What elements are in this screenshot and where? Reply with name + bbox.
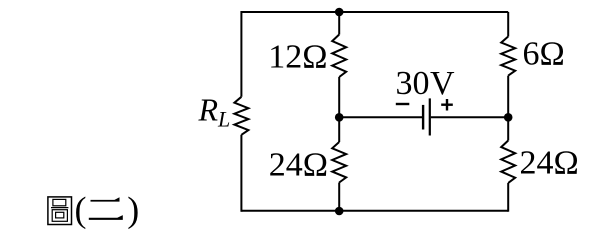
svg-text:30: 30 [396,65,430,102]
svg-text:24Ω: 24Ω [520,145,579,182]
wire top [241,11,508,13]
caption glyph ER (two) bottom stroke [89,215,123,220]
node bottom junction [335,207,344,216]
caption glyph TU (figure) outer box [48,197,72,225]
resistor 12ohm [332,35,346,78]
wire left branch upper [240,11,242,97]
svg-text:RL: RL [198,92,231,132]
wire middle branch center [338,77,340,142]
svg-text:V: V [430,65,455,102]
resistor 24ohm right [501,141,515,184]
wire middle branch top stub [338,12,340,35]
battery minus sign [396,103,410,105]
wire middle branch bottom stub [338,183,340,211]
svg-text:24Ω: 24Ω [269,147,328,184]
battery V1 short negative plate [422,105,424,130]
node top junction [335,8,344,17]
caption glyph TU inner details [51,199,68,221]
svg-text:12Ω: 12Ω [268,39,327,76]
resistor 6ohm [501,37,515,76]
wire left branch lower [240,135,242,212]
wire middle horizontal left of battery [339,116,422,118]
wire right branch center [507,76,509,141]
wire middle horizontal right of battery [431,116,508,118]
node middle right junction [504,113,513,122]
caption glyph ER (two) top stroke [91,197,120,201]
wire right branch bottom stub [507,183,509,212]
wire bottom [241,210,508,212]
resistor R_L [234,97,248,135]
svg-text:): ) [127,190,139,230]
battery plus sign [441,99,453,111]
resistor 24ohm middle [332,142,346,183]
wire right branch top stub [507,12,509,37]
battery V1 long positive plate [429,98,431,135]
node middle left junction [335,113,344,122]
svg-text:6Ω: 6Ω [523,36,565,73]
svg-text:(: ( [75,190,87,230]
